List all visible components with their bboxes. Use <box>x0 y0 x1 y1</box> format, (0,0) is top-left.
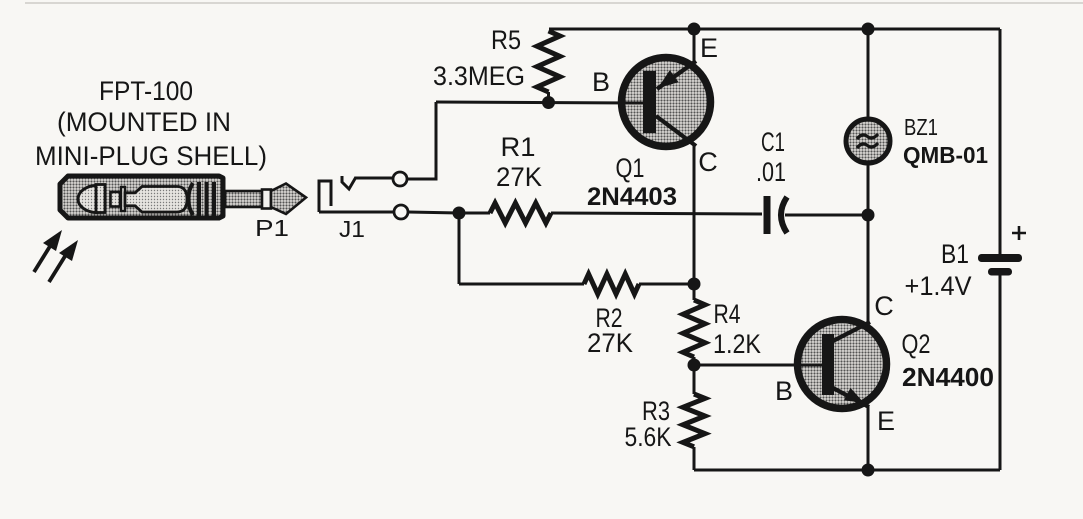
node R2/R4/Q1-collector <box>688 278 701 291</box>
svg-text:C: C <box>874 291 894 321</box>
capacitor C1 right curved plate <box>781 197 787 233</box>
plug tip <box>271 184 306 215</box>
battery B1 top wire <box>999 29 1002 254</box>
svg-text:B1: B1 <box>941 239 969 269</box>
wire C1 to node <box>785 214 868 217</box>
svg-text:Q1: Q1 <box>616 153 645 183</box>
buzzer bottom wire <box>867 163 870 215</box>
node C1/buzzer/Q2 collector <box>862 209 875 222</box>
svg-text:C: C <box>698 147 718 177</box>
Q1 collector diagonal <box>656 116 696 146</box>
Q2 emitter arrowhead (NPN) <box>844 388 864 403</box>
phototransistor plug P1 shell <box>60 176 223 218</box>
svg-text:.01: .01 <box>756 157 786 187</box>
wire node down to R2 row <box>458 213 461 284</box>
node top rail Q1 emitter <box>688 23 701 36</box>
capacitor C1 left plate <box>764 196 771 234</box>
J1 sleeve wire <box>319 211 394 214</box>
plug shaft and rings <box>225 190 271 209</box>
R5 bottom lead <box>547 92 550 103</box>
FPT-100 device inside shell <box>78 185 187 213</box>
node bottom rail Q2 emitter <box>862 464 875 477</box>
transistor Q1 circle <box>622 58 711 147</box>
Q1 collector vertical wire down to node <box>693 145 696 284</box>
svg-text:C1: C1 <box>761 127 785 157</box>
battery long plate <box>978 254 1022 262</box>
resistor R4 <box>683 300 705 357</box>
wire top rail <box>549 28 1000 31</box>
wire tip contact to circle <box>355 177 393 180</box>
light arrow 2 <box>49 240 78 282</box>
node R5/base <box>542 96 555 109</box>
node top rail buzzer <box>862 23 875 36</box>
wire R2 to node <box>639 283 694 286</box>
Q2 collector diagonal <box>833 322 870 341</box>
J1 tip contact <box>342 176 356 189</box>
svg-text:B: B <box>592 67 610 97</box>
Q2 collector vertical wire <box>867 215 870 324</box>
wire circle to node <box>408 212 459 213</box>
svg-text:R1: R1 <box>501 132 536 162</box>
svg-text:2N4400: 2N4400 <box>902 362 994 392</box>
battery short plate <box>988 268 1012 276</box>
svg-text:MINI-PLUG SHELL): MINI-PLUG SHELL) <box>35 141 267 171</box>
buzzer BZ1 <box>846 119 890 163</box>
svg-text:5.6K: 5.6K <box>625 422 672 452</box>
svg-text:27K: 27K <box>587 328 633 358</box>
wire B line to Q1 base <box>436 102 646 103</box>
svg-text:27K: 27K <box>496 162 542 192</box>
Q2 base bar <box>822 334 834 395</box>
battery bottom wire <box>999 275 1002 470</box>
resistor R3 <box>683 394 705 447</box>
plug collar ribs <box>188 182 214 216</box>
Q1 emitter diagonal <box>657 61 696 89</box>
buzzer BZ1 top wire <box>867 29 870 120</box>
resistor R1 <box>490 203 551 223</box>
svg-text:3.3MEG: 3.3MEG <box>433 61 525 91</box>
svg-text:P1: P1 <box>255 215 289 241</box>
jack J1 body <box>319 181 331 212</box>
resistor R2 <box>584 274 639 294</box>
svg-text:BZ1: BZ1 <box>904 114 938 140</box>
Q1 emitter arrowhead (PNP) <box>658 70 679 88</box>
light arrow 1 <box>34 230 62 272</box>
BZ1 tilde symbol <box>857 134 878 148</box>
svg-text:1.2K: 1.2K <box>713 329 761 359</box>
wire node to Q2 base <box>694 364 824 367</box>
svg-text:QMB-01: QMB-01 <box>903 142 988 168</box>
transistor Q2 circle <box>798 320 887 409</box>
svg-text:+1.4V: +1.4V <box>905 271 972 301</box>
R4 leads <box>693 284 696 300</box>
svg-text:E: E <box>700 33 718 63</box>
resistor R5 <box>537 31 560 92</box>
wire circle to corner up <box>407 102 436 179</box>
wire R1 to C1 <box>551 213 762 214</box>
node R4/R3/Q2 base <box>688 359 701 372</box>
Q2 emitter vertical wire <box>867 406 870 470</box>
label FPT-100 (MOUNTED IN MINI-PLUG SHELL) <box>35 76 267 171</box>
svg-text:Q2: Q2 <box>902 329 931 359</box>
Q1 base bar <box>643 71 656 133</box>
R3 leads <box>693 365 696 394</box>
svg-text:J1: J1 <box>339 216 365 242</box>
Q1 emitter vertical wire <box>693 29 696 62</box>
J1 tip terminal circle <box>393 172 407 186</box>
wire to R2 <box>459 283 584 286</box>
node at J1/R1 <box>453 207 466 220</box>
Q2 emitter diagonal <box>833 388 869 407</box>
svg-text:B: B <box>775 376 793 406</box>
svg-text:FPT-100: FPT-100 <box>99 76 193 106</box>
svg-text:(MOUNTED IN: (MOUNTED IN <box>57 107 231 137</box>
svg-text:R5: R5 <box>491 25 521 55</box>
battery plus sign <box>1012 226 1026 240</box>
J1 sleeve terminal circle <box>394 205 408 219</box>
wire bottom rail <box>694 469 1000 472</box>
svg-text:R4: R4 <box>714 299 741 329</box>
svg-text:2N4403: 2N4403 <box>587 183 677 211</box>
wire node to R1 <box>459 212 490 215</box>
svg-text:E: E <box>877 406 895 436</box>
